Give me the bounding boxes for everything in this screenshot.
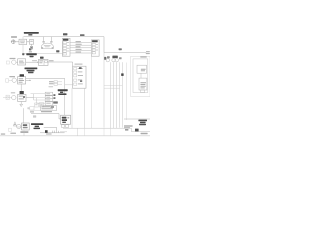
sensor row 2 probe symbol bbox=[6, 79, 9, 82]
branch wire Wb2 bbox=[104, 87, 120, 89]
drop cap D2 bbox=[50, 42, 52, 44]
junction dot on feedback wire bbox=[22, 53, 24, 55]
sensor row 3 probe symbol bbox=[6, 95, 9, 99]
junction cluster vertical V2 bbox=[36, 98, 38, 104]
cluster small box Ba bbox=[35, 103, 39, 107]
row 4 converter box bbox=[22, 123, 30, 130]
pump P1 (dome) bbox=[41, 43, 53, 48]
text below row4 box bbox=[20, 131, 28, 132]
signal riser W4 bbox=[116, 62, 118, 128]
instrument bubble I3 bbox=[115, 59, 118, 62]
branch wire Wb1 bbox=[104, 85, 122, 87]
stub riser sb1 bbox=[77, 128, 79, 135]
sensor row 3 transmitter bubble bbox=[12, 95, 16, 99]
signal riser W1 bbox=[103, 53, 105, 128]
wire bus drop right bbox=[103, 37, 105, 53]
faint wire label row1 bbox=[32, 60, 37, 61]
header end label bbox=[146, 51, 150, 52]
drain stem row3 bbox=[20, 101, 22, 104]
wire label above controller K1 bbox=[63, 33, 67, 35]
stub riser sb2 bbox=[84, 88, 86, 128]
title label (drawing header text) bbox=[24, 32, 39, 36]
cluster big label bbox=[58, 89, 68, 95]
bottom middle box BM bbox=[61, 115, 71, 124]
tick pair t1 bbox=[52, 131, 54, 133]
bottom long wire bbox=[63, 127, 131, 129]
drain arrow row3 bbox=[20, 104, 23, 106]
node label above summing junction bbox=[11, 36, 17, 37]
wire M1 to PLC bbox=[48, 61, 73, 63]
terminal box RB3 bbox=[141, 90, 145, 93]
wire K1 to K2 line 2 bbox=[70, 44, 91, 46]
faint text left bottom 1 bbox=[10, 133, 16, 134]
wire label M1 to PLC bbox=[49, 60, 54, 61]
bottom border end label bbox=[141, 133, 148, 134]
drop wire D2 from bus bbox=[50, 37, 52, 42]
PLC dark tag inside top bbox=[79, 67, 82, 69]
tick pair t2 bbox=[54, 131, 56, 133]
sensor row 2 small label bbox=[9, 76, 15, 77]
sensor row 1 transmitter bubble bbox=[12, 60, 16, 64]
summing junction S1 bbox=[11, 40, 16, 44]
wire label line 2 bbox=[76, 44, 82, 45]
wire K1 to K2 line 1 bbox=[70, 42, 91, 44]
block B1 bbox=[19, 39, 27, 44]
wire row2 box down to row3 bbox=[20, 84, 22, 91]
row 4 riser in bbox=[22, 108, 24, 123]
header mid label bbox=[140, 56, 146, 57]
wire K1 to K2 line 3 bbox=[70, 47, 91, 49]
sensor row 3 small label bbox=[11, 92, 15, 93]
outer enclosure rectangle bbox=[131, 56, 150, 96]
bottom right gray text 1 bbox=[124, 125, 133, 126]
relay box RB1 bbox=[137, 65, 147, 73]
bottom center wire upper bbox=[44, 126, 57, 128]
PLC rack box bbox=[73, 66, 86, 88]
cluster wire c3 bbox=[34, 99, 46, 101]
relay box RB2 bbox=[139, 78, 147, 90]
wire converter out row2 with arrow bbox=[26, 79, 31, 81]
sensor row 1 small label bbox=[10, 58, 16, 59]
wire label above header bbox=[119, 48, 122, 50]
note stub wire n1 bbox=[58, 81, 63, 83]
wire transmitter to converter row1 bbox=[16, 61, 18, 63]
signal riser W5 bbox=[119, 62, 121, 127]
bottom right dark mark bbox=[135, 129, 139, 132]
bottom center corner bbox=[56, 127, 58, 132]
wire cluster to BM box bbox=[31, 113, 59, 115]
wire converter out row3 bbox=[26, 97, 34, 99]
bottom right wire bbox=[131, 131, 150, 133]
feedback wire tag 1 bbox=[29, 48, 31, 50]
drop cap D1 bbox=[43, 42, 45, 44]
dark junction square bottom bbox=[45, 130, 48, 133]
BM lower symbol 2 bbox=[66, 125, 69, 128]
wire corner into PLC top bbox=[72, 62, 74, 66]
actuator A1 bbox=[30, 46, 32, 49]
PLC header label (faint) bbox=[75, 64, 83, 65]
wire K1 to K2 line 4 bbox=[70, 49, 91, 51]
sensor row 3 converter box bbox=[18, 94, 26, 101]
wire into row3 bbox=[3, 97, 12, 99]
drop wire D1 from bus bbox=[43, 37, 45, 42]
signal riser from K2 bottom bbox=[91, 56, 93, 128]
cluster lower wire bbox=[30, 109, 41, 111]
instrument bubble I1 bbox=[106, 59, 109, 62]
terminal dark tag t1 bbox=[53, 94, 55, 96]
faint node mark bbox=[27, 107, 29, 109]
note tiny box n1 bbox=[54, 81, 58, 83]
cluster wire c4 bbox=[37, 103, 46, 105]
faint text left bottom 2 bbox=[1, 133, 5, 134]
corner down right bbox=[130, 128, 132, 132]
sensor row 2 transmitter bubble bbox=[12, 78, 16, 82]
sensor row 1 label bbox=[26, 51, 37, 57]
row 4 relief triangle bbox=[13, 122, 16, 126]
stub below bus sb4 bbox=[103, 128, 105, 135]
terminal box S4 bbox=[45, 102, 53, 105]
note stub wire n2 bbox=[58, 83, 63, 85]
block B2 bbox=[29, 40, 33, 45]
wire corner down to BM bbox=[58, 114, 60, 119]
note tiny box n2 bbox=[54, 83, 58, 85]
terminal label t3 bbox=[53, 101, 58, 103]
sensor row 2 converter box bbox=[18, 77, 26, 84]
instrument bubble I2 bbox=[112, 59, 115, 62]
wire note to PLC bbox=[65, 84, 73, 86]
main supply wire (top bus) bbox=[24, 36, 105, 38]
terminal box S1 bbox=[45, 92, 52, 95]
wire label L1 on top bus bbox=[80, 34, 85, 36]
riser from row2 wire down bbox=[64, 78, 66, 115]
feedback wire B1 bottom to controller K1 bbox=[23, 45, 62, 54]
stem below row4 box bbox=[23, 131, 25, 136]
signal riser W6 bbox=[121, 62, 123, 127]
note text cluster left of PLC bbox=[49, 81, 54, 84]
bottom right tiny text bbox=[125, 129, 128, 131]
wire label line 1 bbox=[76, 41, 81, 42]
left small box LB bbox=[30, 107, 34, 110]
controller K1 bbox=[62, 38, 70, 56]
wire horizontal header bbox=[104, 52, 146, 54]
wire RB1 to RB2 bbox=[140, 73, 142, 78]
stub below bus sb3 bbox=[84, 128, 86, 135]
stub B1 top to bus bbox=[22, 37, 24, 40]
instrument tag label TD bbox=[119, 57, 122, 59]
cluster wire c2 bbox=[34, 97, 46, 99]
bottom right box header line bbox=[124, 118, 150, 120]
module box M1 bbox=[39, 59, 49, 65]
wire K1 to K2 line 5 bbox=[70, 52, 91, 54]
terminal box S3 bbox=[45, 99, 53, 102]
inner enclosure rectangle bbox=[133, 59, 148, 93]
short mark under BM bbox=[60, 131, 67, 133]
bottom right bold label bbox=[138, 120, 147, 126]
marshalling box W bbox=[41, 106, 57, 111]
long wire row2 to riser bbox=[26, 77, 65, 79]
cluster wire c1 bbox=[31, 93, 46, 95]
sensor row 1 probe symbol bbox=[6, 61, 9, 64]
row 4 faint probe bbox=[9, 128, 12, 131]
wire B1 to block B2 bbox=[27, 41, 30, 43]
wire label line 3 bbox=[76, 46, 81, 47]
stem from B2 to actuator A1 bbox=[31, 44, 33, 46]
signal riser W3 bbox=[113, 62, 115, 128]
BM lower symbol 1 bbox=[62, 125, 65, 128]
wire stub into BM bbox=[59, 118, 61, 120]
wire probe to transmitter row2 bbox=[9, 79, 12, 81]
page border bottom bbox=[0, 135, 150, 137]
wire S1 to block B1 bbox=[16, 41, 19, 43]
wire PLC bottom down to bottom bus bbox=[71, 88, 73, 128]
module M1 header label bbox=[40, 57, 44, 59]
row 4 transmitter bubble bbox=[17, 124, 21, 128]
text below bottom wire bbox=[46, 133, 52, 134]
wire label line 4 bbox=[76, 49, 82, 50]
faint text below notes bbox=[49, 86, 54, 87]
stub below bus sb5 bbox=[110, 128, 112, 135]
controller K2 bbox=[91, 40, 99, 56]
wire converter to module row1 bbox=[26, 61, 39, 63]
signal riser W7 bbox=[125, 63, 127, 121]
cluster lower text bbox=[30, 111, 34, 112]
junction block on W6 bbox=[121, 73, 123, 76]
sensor row 1 converter box bbox=[18, 59, 26, 65]
sensor row 3 header label bbox=[20, 91, 24, 94]
faint text below LB bbox=[33, 115, 36, 117]
wire label line 5 bbox=[76, 52, 82, 53]
instrument tag label TC bbox=[112, 56, 117, 59]
text row below box W bbox=[41, 111, 52, 112]
sensor row 2 big label bbox=[25, 68, 38, 74]
row 4 big label bbox=[31, 123, 43, 129]
instrument tag label TA bbox=[104, 57, 106, 60]
instrument tag label TB bbox=[107, 56, 110, 58]
tick t3 bbox=[58, 131, 60, 133]
bottom right gray text 2 bbox=[124, 127, 130, 128]
wire arrowhead row1 bbox=[37, 62, 38, 63]
bottom center wire lower bbox=[40, 132, 65, 134]
wire triangle to bubble bbox=[17, 126, 22, 128]
signal riser W2 bbox=[110, 62, 112, 128]
feedback wire tag 2 bbox=[56, 50, 59, 52]
junction cluster vertical V1 bbox=[33, 94, 35, 100]
terminal box S2 bbox=[45, 96, 52, 99]
terminal dark tag t2 bbox=[53, 97, 55, 99]
cluster small box Bb bbox=[40, 103, 44, 108]
dark header block above row2 box bbox=[20, 74, 24, 77]
